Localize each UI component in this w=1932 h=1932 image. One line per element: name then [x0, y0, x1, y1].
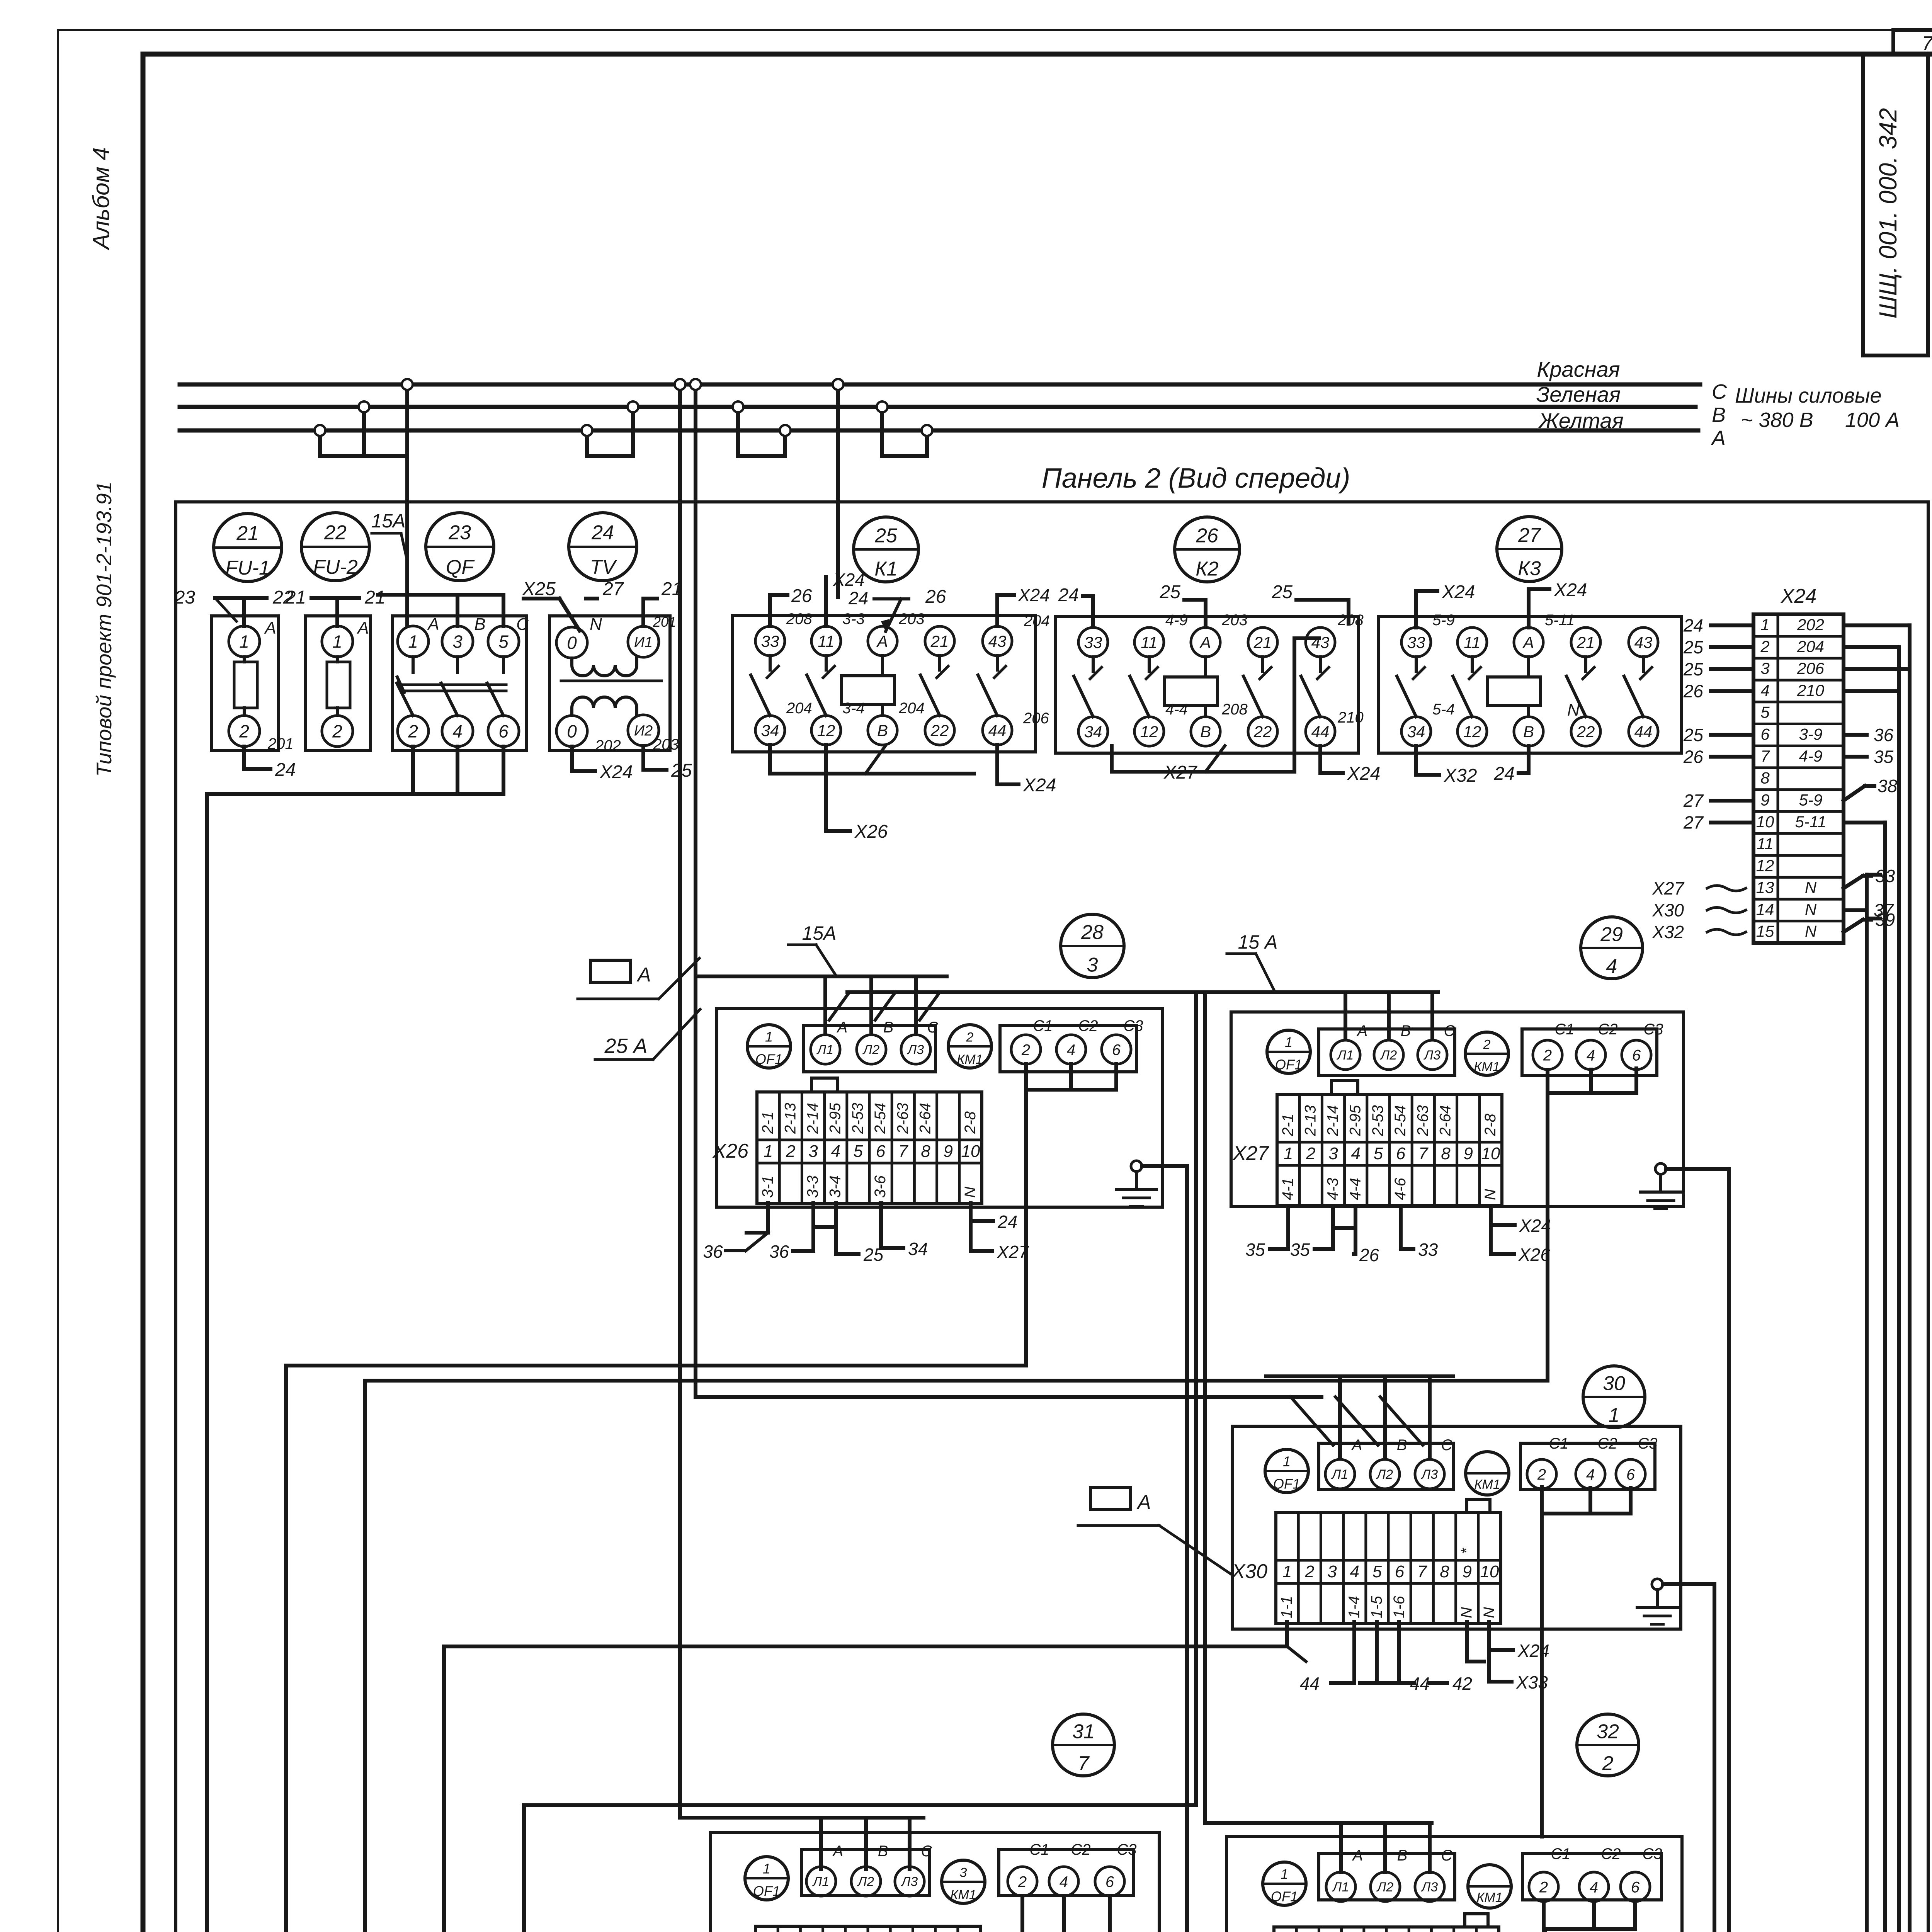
- QF contacts: [412, 657, 415, 672]
- svg-text:43: 43: [1311, 633, 1330, 651]
- svg-text:А: А: [264, 619, 276, 638]
- designator circle 32/2: [1577, 1714, 1639, 1776]
- svg-text:6: 6: [876, 1142, 886, 1161]
- svg-text:203: 203: [653, 736, 679, 753]
- svg-text:С2: С2: [1071, 1841, 1090, 1858]
- svg-text:35: 35: [1290, 1240, 1310, 1260]
- svg-text:N: N: [1481, 1607, 1498, 1618]
- svg-text:И1: И1: [634, 634, 653, 651]
- TV bottom leads: [572, 747, 595, 771]
- svg-text:31: 31: [1072, 1720, 1095, 1743]
- svg-text:6: 6: [498, 721, 509, 742]
- svg-text:А: А: [356, 619, 369, 638]
- svg-text:4: 4: [1590, 1879, 1598, 1896]
- svg-text:6: 6: [1105, 1873, 1114, 1890]
- svg-text:3: 3: [1760, 659, 1769, 677]
- svg-text:7: 7: [898, 1142, 908, 1161]
- svg-text:208: 208: [1337, 612, 1364, 629]
- svg-text:С2: С2: [1597, 1435, 1617, 1452]
- trunk drop 1 from bus C (to block 31): [678, 384, 682, 1818]
- breaker QF1 of block 29: [1267, 1030, 1310, 1073]
- svg-text:2: 2: [966, 1030, 974, 1045]
- svg-text:ШЩ. 001. 000. 342: ШЩ. 001. 000. 342: [1874, 108, 1902, 319]
- svg-text:8: 8: [921, 1142, 930, 1161]
- svg-text:2-8: 2-8: [962, 1111, 979, 1134]
- circuit breaker 23 QF designator circle: [426, 513, 494, 581]
- svg-text:28: 28: [1081, 921, 1104, 944]
- svg-text:Х26: Х26: [854, 821, 888, 842]
- svg-text:Л2: Л2: [862, 1043, 879, 1057]
- power bus A (Желтая): [180, 429, 1698, 433]
- svg-text:4: 4: [1760, 681, 1769, 699]
- svg-text:38: 38: [1878, 776, 1898, 796]
- svg-text:34: 34: [1407, 723, 1425, 741]
- svg-text:К3: К3: [1518, 558, 1541, 580]
- svg-text:А: А: [1351, 1437, 1362, 1454]
- svg-text:27: 27: [1683, 813, 1704, 833]
- svg-text:2: 2: [1304, 1562, 1314, 1581]
- contactor KM1 of block 29: [1465, 1032, 1509, 1075]
- svg-text:2-14: 2-14: [804, 1103, 821, 1134]
- svg-text:25: 25: [1683, 637, 1704, 657]
- svg-text:11: 11: [1141, 633, 1158, 651]
- svg-text:С: С: [921, 1843, 933, 1860]
- svg-text:6: 6: [1395, 1562, 1405, 1581]
- svg-text:3-6: 3-6: [872, 1175, 889, 1198]
- terminal table Х32: [755, 1926, 980, 1932]
- wire 1-K2 column riser: [442, 1646, 446, 1932]
- feeder drop from bus C to QF: [405, 384, 409, 626]
- svg-text:210: 210: [1797, 681, 1825, 699]
- svg-text:8: 8: [1760, 769, 1770, 787]
- svg-text:1: 1: [763, 1861, 770, 1877]
- input terminals box of block 31: [801, 1849, 930, 1896]
- svg-text:Х25: Х25: [522, 579, 556, 599]
- terminal table Х26: [757, 1092, 982, 1203]
- svg-text:7: 7: [1418, 1144, 1429, 1163]
- designator circle 31/7: [1053, 1714, 1114, 1776]
- svg-text:2-14: 2-14: [1325, 1105, 1342, 1136]
- svg-text:10: 10: [1480, 1562, 1499, 1581]
- svg-text:33: 33: [761, 632, 779, 650]
- svg-text:5-4: 5-4: [1432, 701, 1455, 718]
- block 28 ground wire: [1142, 1164, 1187, 1168]
- svg-text:QF1: QF1: [1275, 1057, 1302, 1073]
- svg-text:5: 5: [854, 1142, 863, 1161]
- svg-text:В: В: [1397, 1847, 1408, 1864]
- svg-text:~ 380 В: ~ 380 В: [1741, 408, 1813, 432]
- block 32 output 2 long wire to 2-К2 column: [836, 1901, 1544, 1932]
- contactor К3 contacts: [1415, 657, 1418, 671]
- svg-text:3-3: 3-3: [842, 611, 865, 628]
- svg-text:Л2: Л2: [1376, 1467, 1393, 1482]
- block 30 KM1 output joins: [1588, 1488, 1592, 1514]
- svg-text:3: 3: [960, 1866, 967, 1880]
- svg-text:Х27: Х27: [1232, 1142, 1269, 1165]
- svg-text:24: 24: [275, 760, 296, 780]
- X24 left side wires: [1711, 623, 1753, 627]
- svg-text:22: 22: [1253, 723, 1272, 741]
- starter block 29 outline: [1231, 1012, 1684, 1207]
- svg-text:2: 2: [408, 721, 418, 742]
- tap jumper 4: [880, 407, 884, 456]
- svg-text:Л3: Л3: [1423, 1048, 1440, 1063]
- svg-text:32: 32: [1597, 1720, 1619, 1743]
- svg-text:208: 208: [786, 611, 812, 628]
- svg-text:Л3: Л3: [1421, 1467, 1438, 1482]
- starter block 28 outline: [717, 1009, 1162, 1207]
- fuse FU-1: [211, 616, 279, 750]
- svg-text:С: С: [927, 1019, 939, 1036]
- svg-text:QF1: QF1: [753, 1883, 780, 1899]
- svg-text:В: В: [1401, 1022, 1411, 1039]
- svg-text:Х24: Х24: [1517, 1641, 1549, 1661]
- contactor К2 designator circle: [1175, 517, 1240, 582]
- svg-text:100 А: 100 А: [1845, 408, 1900, 432]
- svg-text:2-1: 2-1: [759, 1111, 776, 1134]
- svg-text:С3: С3: [1117, 1841, 1136, 1858]
- svg-text:А: А: [1352, 1847, 1363, 1864]
- output terminals box of block 28: [1000, 1026, 1136, 1072]
- svg-text:2: 2: [1539, 1879, 1548, 1896]
- power bus C (Красная): [180, 383, 1700, 387]
- svg-text:Х26: Х26: [1518, 1245, 1550, 1265]
- svg-text:Л2: Л2: [1376, 1880, 1393, 1895]
- svg-text:21: 21: [661, 579, 682, 599]
- svg-text:2: 2: [1543, 1047, 1552, 1064]
- svg-text:204: 204: [1024, 612, 1050, 629]
- svg-text:3-4: 3-4: [827, 1175, 844, 1198]
- svg-text:Х30: Х30: [1652, 900, 1684, 920]
- feed drops into block 29: [1344, 992, 1347, 1037]
- svg-text:23: 23: [448, 522, 471, 544]
- breaker QF1 of block 30: [1265, 1449, 1308, 1493]
- svg-text:Л3: Л3: [907, 1043, 924, 1057]
- X24 row9 wire to 38: [1844, 786, 1865, 801]
- svg-text:2-13: 2-13: [1302, 1105, 1319, 1136]
- svg-text:3: 3: [808, 1142, 818, 1161]
- svg-text:3-1: 3-1: [759, 1175, 776, 1198]
- svg-text:22: 22: [1577, 723, 1595, 741]
- svg-text:4: 4: [1060, 1873, 1068, 1890]
- svg-text:N: N: [1482, 1189, 1499, 1200]
- svg-text:4: 4: [1606, 955, 1617, 978]
- svg-text:15: 15: [1756, 922, 1774, 940]
- svg-text:С2: С2: [1601, 1845, 1621, 1862]
- svg-text:В: В: [1397, 1437, 1407, 1454]
- output terminals box of block 31: [999, 1849, 1133, 1896]
- svg-text:11: 11: [818, 632, 835, 650]
- svg-text:21: 21: [236, 522, 259, 545]
- svg-text:QF1: QF1: [1271, 1889, 1298, 1905]
- svg-text:С1: С1: [1549, 1435, 1568, 1452]
- svg-text:Х24: Х24: [833, 570, 865, 590]
- svg-text:2: 2: [786, 1142, 795, 1161]
- svg-text:14: 14: [1756, 900, 1774, 918]
- block 32 KM1 output joins: [1592, 1901, 1596, 1929]
- transformer 24 TV designator circle: [569, 513, 637, 581]
- svg-text:КМ1: КМ1: [957, 1052, 983, 1067]
- A-marker rectangle 2: [1090, 1488, 1131, 1510]
- svg-text:1: 1: [332, 632, 342, 652]
- svg-text:А: А: [427, 615, 439, 634]
- output terminals box of block 32: [1522, 1854, 1662, 1900]
- svg-text:4: 4: [1586, 1466, 1595, 1483]
- svg-text:7: 7: [1417, 1562, 1427, 1581]
- tap jumper 2 (TV group): [585, 430, 589, 456]
- bracket over X33 col 9: [1465, 1914, 1488, 1927]
- svg-text:15А: 15А: [371, 510, 406, 532]
- document number box (rotated) ШЩ.001.000.342: [1863, 54, 1928, 355]
- svg-text:К1: К1: [874, 558, 898, 580]
- svg-text:3: 3: [1327, 1562, 1337, 1581]
- svg-text:А: А: [1199, 633, 1211, 651]
- wire from K2 43-pin to X27 lead: [1294, 638, 1319, 772]
- svg-text:8: 8: [1441, 1144, 1451, 1163]
- svg-text:204: 204: [786, 700, 812, 717]
- svg-text:24: 24: [1058, 585, 1079, 605]
- bracket over X27 cols 3-4: [1332, 1080, 1358, 1094]
- svg-text:10: 10: [1756, 813, 1774, 831]
- svg-text:Л2: Л2: [1380, 1048, 1397, 1063]
- svg-text:Х30: Х30: [1231, 1560, 1267, 1583]
- svg-text:34: 34: [761, 721, 779, 740]
- svg-text:1: 1: [1284, 1144, 1293, 1163]
- feed drops into block 32: [1205, 992, 1432, 1823]
- feed drops into block 31: [680, 1816, 923, 1820]
- svg-text:204: 204: [1797, 638, 1824, 656]
- svg-text:Х26: Х26: [712, 1140, 748, 1162]
- svg-text:4-3: 4-3: [1325, 1178, 1342, 1200]
- svg-text:22: 22: [930, 721, 949, 740]
- svg-text:27: 27: [1518, 524, 1541, 547]
- svg-text:7: 7: [1760, 747, 1770, 765]
- contactor KM1 of block 32: [1468, 1865, 1511, 1908]
- svg-text:5-9: 5-9: [1432, 612, 1455, 629]
- svg-text:4: 4: [452, 721, 463, 742]
- svg-text:А: А: [1711, 427, 1726, 450]
- svg-text:43: 43: [1634, 633, 1653, 651]
- svg-text:12: 12: [1463, 723, 1481, 741]
- svg-text:202: 202: [1797, 616, 1824, 634]
- svg-text:0: 0: [567, 721, 577, 742]
- svg-text:9: 9: [1462, 1562, 1471, 1581]
- svg-text:И2: И2: [634, 723, 653, 739]
- X24 rows 9-10 trunk: [1844, 821, 1885, 825]
- svg-text:КМ1: КМ1: [1476, 1890, 1502, 1905]
- svg-text:Х32: Х32: [1652, 922, 1684, 942]
- input terminals box of block 30: [1319, 1443, 1453, 1490]
- X24 row13 wire to 33: [1844, 876, 1863, 888]
- svg-text:2-64: 2-64: [1437, 1105, 1454, 1136]
- terminal table Х27: [1277, 1094, 1502, 1206]
- svg-text:203: 203: [898, 611, 925, 628]
- QF top feed bracket: [378, 593, 502, 597]
- svg-text:42: 42: [1452, 1673, 1472, 1694]
- svg-text:2: 2: [1018, 1873, 1027, 1890]
- svg-text:С3: С3: [1643, 1021, 1663, 1038]
- svg-text:208: 208: [1221, 701, 1248, 718]
- svg-text:25: 25: [1272, 582, 1293, 602]
- svg-text:Х27: Х27: [1652, 878, 1684, 898]
- svg-text:25: 25: [874, 525, 898, 547]
- svg-text:6: 6: [1396, 1144, 1406, 1163]
- svg-text:22: 22: [324, 522, 347, 544]
- svg-text:12: 12: [1756, 857, 1774, 875]
- svg-text:27: 27: [1683, 791, 1704, 811]
- svg-text:2: 2: [239, 721, 249, 742]
- svg-text:1-5: 1-5: [1368, 1595, 1385, 1618]
- svg-text:25: 25: [1160, 582, 1181, 602]
- svg-text:С3: С3: [1123, 1017, 1143, 1034]
- svg-text:Л1: Л1: [1331, 1467, 1348, 1482]
- svg-text:А: А: [832, 1843, 844, 1860]
- svg-text:201: 201: [267, 735, 294, 752]
- contactor К1 coil: [842, 676, 895, 704]
- svg-text:Желтая: Желтая: [1537, 408, 1623, 433]
- svg-text:30: 30: [1603, 1372, 1625, 1395]
- svg-text:1: 1: [764, 1142, 773, 1161]
- svg-text:Х24: Х24: [1018, 585, 1050, 605]
- svg-text:26: 26: [1683, 747, 1704, 767]
- block 30 output 2 wire down: [1540, 1487, 1544, 1837]
- svg-text:15 А: 15 А: [1238, 931, 1278, 953]
- svg-text:24: 24: [1683, 615, 1703, 635]
- svg-text:Л3: Л3: [901, 1874, 918, 1889]
- svg-text:21: 21: [930, 632, 949, 650]
- svg-text:2: 2: [1602, 1752, 1614, 1775]
- svg-text:6: 6: [1626, 1466, 1635, 1483]
- svg-text:5: 5: [1372, 1562, 1382, 1581]
- contactor К1 designator circle: [854, 517, 918, 582]
- svg-text:N: N: [1567, 701, 1580, 719]
- svg-text:1: 1: [1282, 1562, 1292, 1581]
- svg-text:С: С: [1441, 1437, 1453, 1454]
- svg-text:4-1: 4-1: [1279, 1178, 1296, 1200]
- svg-text:26: 26: [791, 586, 812, 606]
- svg-text:23: 23: [174, 587, 196, 608]
- TV primary winding: [572, 657, 637, 676]
- svg-text:Зеленая: Зеленая: [1536, 382, 1621, 406]
- svg-text:3: 3: [452, 632, 463, 652]
- svg-text:24: 24: [848, 588, 868, 608]
- terminal table Х33: [1274, 1927, 1499, 1932]
- svg-text:С: С: [1441, 1847, 1453, 1864]
- svg-text:N: N: [962, 1187, 979, 1198]
- svg-text:1: 1: [239, 632, 249, 652]
- svg-text:С: С: [516, 615, 529, 634]
- svg-text:25: 25: [1683, 725, 1704, 745]
- svg-text:24: 24: [997, 1212, 1017, 1232]
- output terminals box of block 29: [1522, 1029, 1657, 1075]
- svg-text:Л1: Л1: [1332, 1880, 1349, 1895]
- svg-text:4: 4: [1067, 1041, 1075, 1058]
- svg-text:25 А: 25 А: [604, 1034, 647, 1058]
- svg-text:5: 5: [1760, 703, 1770, 721]
- svg-text:С1: С1: [1033, 1017, 1053, 1034]
- input terminals box of block 28: [803, 1026, 935, 1072]
- svg-text:24: 24: [591, 522, 614, 544]
- svg-text:7: 7: [1078, 1752, 1090, 1775]
- contactor К1 body: [733, 616, 1036, 752]
- svg-text:2-54: 2-54: [1392, 1105, 1409, 1136]
- svg-text:В: В: [474, 615, 485, 634]
- svg-text:1-6: 1-6: [1391, 1595, 1408, 1618]
- svg-text:Типовой проект 901-2-193.91: Типовой проект 901-2-193.91: [92, 481, 116, 777]
- X24 row14 wire to 37: [1844, 908, 1867, 912]
- contactor К3 body: [1379, 617, 1682, 753]
- svg-text:С: С: [1712, 380, 1727, 403]
- svg-text:Х24: Х24: [1023, 775, 1056, 796]
- K1 bottom leads: [770, 745, 974, 774]
- svg-text:Шины силовые: Шины силовые: [1735, 384, 1882, 407]
- K2 top leads: [1083, 596, 1093, 626]
- svg-text:1: 1: [1609, 1404, 1620, 1427]
- svg-text:С3: С3: [1642, 1845, 1662, 1862]
- svg-text:24: 24: [1494, 764, 1515, 784]
- svg-text:2-54: 2-54: [872, 1103, 889, 1134]
- X24 trunk wires on right: [1844, 623, 1910, 627]
- ground symbol of block 28: [1131, 1161, 1142, 1172]
- feed line to block 30: [696, 1395, 1321, 1399]
- svg-text:Х24: Х24: [599, 762, 633, 782]
- svg-text:1: 1: [765, 1029, 773, 1045]
- svg-text:44: 44: [1300, 1673, 1320, 1694]
- svg-text:21: 21: [1577, 633, 1595, 651]
- breaker QF1 of block 31: [745, 1857, 788, 1900]
- designator circle 29/4: [1581, 917, 1643, 979]
- fuse FU-2: [305, 616, 371, 750]
- block 32 outputs 4/6 long wire to 2-Н1 column: [911, 1929, 1545, 1932]
- svg-text:2: 2: [1537, 1466, 1546, 1483]
- svg-text:Х24: Х24: [1442, 582, 1475, 602]
- svg-text:2-13: 2-13: [782, 1103, 799, 1134]
- svg-text:10: 10: [961, 1142, 980, 1161]
- K3 top leads: [1416, 591, 1437, 628]
- svg-text:КМ1: КМ1: [1474, 1060, 1500, 1074]
- svg-text:Х24: Х24: [1781, 585, 1817, 607]
- svg-text:6: 6: [1112, 1041, 1121, 1058]
- svg-text:А: А: [636, 964, 651, 986]
- X30 bottom wires: [444, 1622, 1287, 1646]
- X24 right side wires: [1844, 733, 1867, 737]
- svg-text:11: 11: [1757, 835, 1774, 853]
- svg-text:QF1: QF1: [1273, 1476, 1300, 1492]
- svg-text:1: 1: [1283, 1454, 1291, 1469]
- svg-text:201: 201: [653, 614, 676, 630]
- svg-text:А: А: [837, 1019, 848, 1036]
- svg-text:25: 25: [1683, 659, 1704, 679]
- svg-text:N: N: [1805, 878, 1817, 896]
- svg-text:34: 34: [1084, 723, 1102, 741]
- svg-text:4-4: 4-4: [1165, 701, 1188, 718]
- block 29 output 2 long wire to motor 4 column: [365, 1070, 1548, 1932]
- block 29 ground wire: [1666, 1167, 1729, 1171]
- breaker QF1 of block 28: [747, 1025, 791, 1068]
- tap jumper 1 (FU/QF group): [318, 430, 322, 456]
- starter block 32 outline: [1226, 1837, 1682, 1932]
- svg-text:С1: С1: [1029, 1841, 1049, 1858]
- svg-text:5-11: 5-11: [1795, 813, 1827, 831]
- contactor К2 body: [1056, 617, 1359, 753]
- block 30 ground wire: [1663, 1582, 1714, 1586]
- svg-text:4: 4: [1350, 1562, 1359, 1581]
- terminal table Х30: [1276, 1512, 1501, 1624]
- svg-text:3: 3: [1328, 1144, 1338, 1163]
- svg-text:В: В: [1712, 403, 1726, 427]
- svg-text:35: 35: [1245, 1240, 1265, 1260]
- svg-text:N: N: [1805, 900, 1817, 918]
